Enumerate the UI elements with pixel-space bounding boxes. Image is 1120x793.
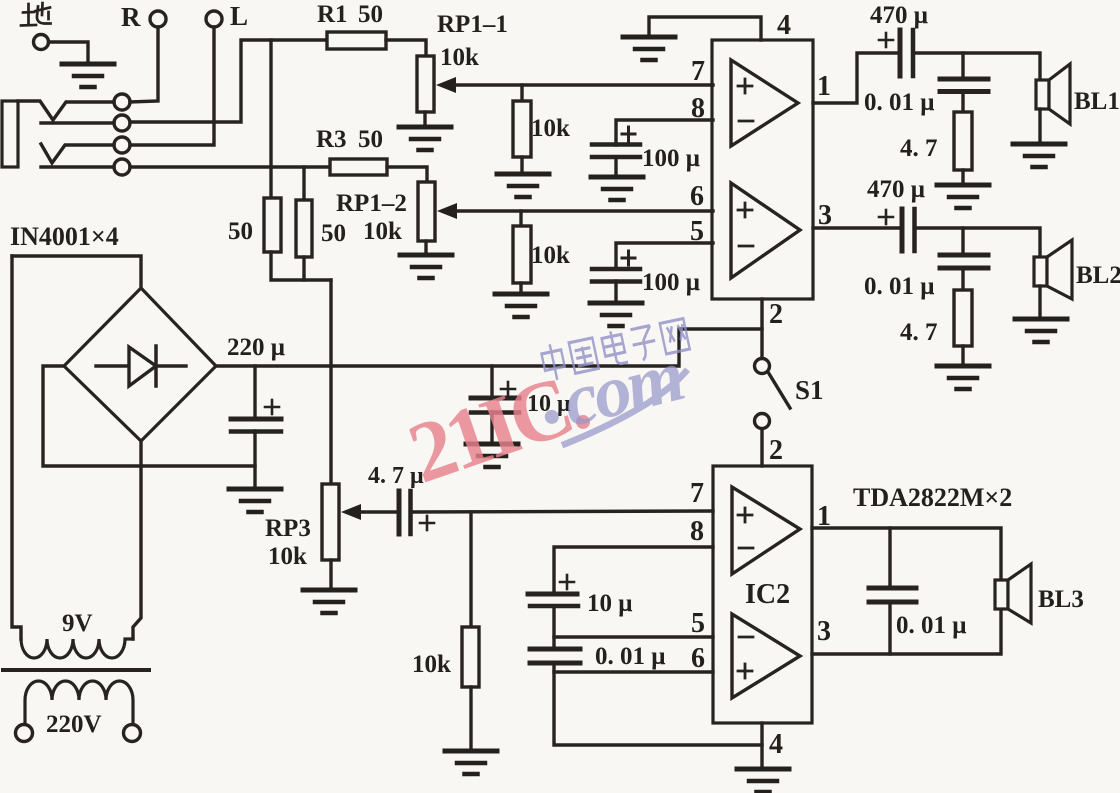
svg-text:470 μ: 470 μ <box>867 176 925 203</box>
svg-text:R3: R3 <box>316 126 347 153</box>
wire BL1 to ground <box>1038 109 1041 142</box>
svg-text:5: 5 <box>691 608 705 639</box>
svg-text:6: 6 <box>690 181 704 212</box>
capacitor 470u (ch1) <box>879 30 913 76</box>
ground BL2 <box>1015 319 1067 342</box>
svg-text:4. 7: 4. 7 <box>900 319 938 346</box>
ground 220u <box>229 489 281 512</box>
wire RP1-1 wiper to IC1 pin7 <box>454 83 713 86</box>
resistor R1 50 <box>327 32 386 49</box>
wire RP1-2 bottom <box>424 241 427 253</box>
label 地 (ground) hand-drawn glyph <box>21 3 51 26</box>
resistor R3 50 <box>330 159 387 175</box>
svg-text:1: 1 <box>817 501 831 532</box>
wire 0.01u ch2 drop <box>961 228 964 255</box>
switch S1 bottom contact <box>755 414 770 429</box>
svg-text:6: 6 <box>691 643 705 674</box>
wire 100u pin5 bottom <box>614 281 617 301</box>
op-amp IC1-A <box>731 60 798 146</box>
wire 100u pin8 bottom <box>614 157 617 175</box>
jack L line <box>41 165 114 168</box>
svg-text:0. 01 μ: 0. 01 μ <box>864 273 934 300</box>
terminal L <box>206 11 222 27</box>
capacitor 470u (ch2) <box>879 209 915 251</box>
ground BL1 <box>1013 144 1065 167</box>
svg-text:2: 2 <box>769 299 783 330</box>
wire IC2 pin4 <box>760 723 763 767</box>
ground (input common) <box>62 64 114 87</box>
capacitor 220u <box>231 366 281 487</box>
wire 10k bias 2 bottom <box>519 283 522 292</box>
wire 4.7 ch1 bottom <box>961 170 964 183</box>
jack contact 4 <box>114 159 130 175</box>
op-amp IC2-A <box>732 487 800 574</box>
svg-text:100 μ: 100 μ <box>642 145 700 172</box>
resistor 10k (pin6 bias) <box>513 226 531 283</box>
svg-text:BL1: BL1 <box>1074 88 1120 115</box>
svg-text:R: R <box>121 2 141 32</box>
terminal R <box>150 11 166 27</box>
bridge rectifier IN4001x4 diamond <box>64 288 216 441</box>
ground IC1 pin4 <box>623 37 675 60</box>
svg-text:0. 01 μ: 0. 01 μ <box>595 643 665 670</box>
svg-text:5: 5 <box>690 216 704 247</box>
wire 4.7 ch2 bottom <box>961 346 964 364</box>
wire 10k bias 1 bottom <box>520 157 523 172</box>
svg-text:50: 50 <box>358 126 383 153</box>
wire R-channel drop to 50 ohm mix resistor <box>269 40 272 198</box>
capacitor 0.01u (ch2) <box>940 255 988 268</box>
speaker BL1 <box>1036 80 1049 109</box>
wire IC2 pin5 <box>554 635 713 638</box>
wire IN4001 top loop <box>12 256 141 288</box>
ground 10k input <box>445 751 497 774</box>
watermark 21IC pink <box>397 352 598 501</box>
resistor 4.7 (ch1) <box>954 112 972 170</box>
wire 4.7u to IC2 pin7 <box>411 511 713 512</box>
svg-text:BL2: BL2 <box>1076 262 1120 289</box>
svg-text:0. 01 μ: 0. 01 μ <box>896 612 966 639</box>
wire IC1 pin1 output <box>813 53 898 103</box>
wire RP1-2 wiper to IC1 pin6 <box>455 209 713 212</box>
capacitor 4.7u <box>399 491 434 534</box>
wire 0.01u BL3 bottom <box>888 602 891 654</box>
svg-text:IC2: IC2 <box>745 579 790 610</box>
svg-text:L: L <box>230 1 248 31</box>
jack contact 1 <box>114 94 130 110</box>
svg-text:3: 3 <box>817 616 831 647</box>
wire 地 to ground <box>49 42 89 62</box>
wire 10u to pin5 node <box>552 606 555 649</box>
wire IC2 pin1 output <box>812 528 1001 580</box>
wire IC1 pin5 to 100u <box>616 243 713 269</box>
svg-text:7: 7 <box>690 478 704 509</box>
op-amp IC2-B <box>732 614 800 698</box>
terminal 220V right <box>124 725 141 742</box>
jack contact 2 <box>114 115 130 131</box>
svg-text:10k: 10k <box>363 218 402 245</box>
svg-text:220 μ: 220 μ <box>227 334 285 361</box>
op-amp IC1-B <box>731 183 800 278</box>
svg-text:TDA2822M×2: TDA2822M×2 <box>853 483 1012 512</box>
ground 100u pin5 <box>590 303 642 326</box>
wire 10k bias 2 drop <box>519 211 522 226</box>
capacitor 100u (pin5) <box>592 251 640 282</box>
IC1 TDA2822M box <box>712 40 813 299</box>
svg-text:7: 7 <box>691 56 705 87</box>
wire 0.01u ch1 drop <box>961 53 964 79</box>
wire IC2 pin6 <box>554 670 713 673</box>
resistor 50 (right mix) <box>296 200 312 257</box>
wire IC1 pin8 to 100u <box>616 120 713 145</box>
wire contact3 to L terminal <box>130 27 214 145</box>
ground RP1-2 <box>400 255 452 278</box>
svg-text:50: 50 <box>358 1 383 28</box>
ground 10u rail <box>466 444 518 467</box>
watermark 中国电子网 blue <box>540 316 690 382</box>
watermark com script blue <box>533 333 698 449</box>
capacitor 0.01u (BL3) <box>869 588 916 602</box>
capacitor 10u (rail filter) <box>471 366 519 442</box>
wire RP1-1 bottom <box>423 112 426 125</box>
wire mix node down to RP3 <box>329 280 332 484</box>
wire contact4 to R3 <box>130 165 330 168</box>
svg-text:3: 3 <box>818 200 832 231</box>
wire RP3 bottom <box>329 560 332 588</box>
potentiometer RP1-2 10k <box>418 182 435 241</box>
resistor 50 (left mix) <box>264 198 281 252</box>
wire switch to IC2 pin2 <box>760 429 763 466</box>
wire RP3 wiper to 4.7u <box>359 510 397 513</box>
wire IC1 pin3 output <box>813 226 902 229</box>
ground 100u pin8 <box>591 177 643 200</box>
wire 0.01u ch1 to 4.7 <box>961 91 964 112</box>
wire transformer secondary left lead <box>12 256 21 639</box>
ground 10k bias 2 <box>495 294 547 317</box>
svg-text:10k: 10k <box>412 651 451 678</box>
svg-text:9V: 9V <box>62 610 93 637</box>
potentiometer RP1-1 10k <box>417 56 434 112</box>
wire 10k input bottom <box>469 687 472 749</box>
ground RP1-1 <box>399 127 451 150</box>
svg-text:R1: R1 <box>317 1 348 28</box>
switch S1 top contact <box>755 359 770 374</box>
svg-text:4. 7: 4. 7 <box>900 135 938 162</box>
jack body <box>2 101 18 167</box>
resistor 10k (IC2 input) <box>462 627 479 687</box>
svg-text:8: 8 <box>691 93 705 124</box>
transformer core <box>3 668 149 672</box>
ground RP3 <box>303 590 355 613</box>
potentiometer RP3 10k <box>322 484 339 560</box>
terminal 220V left <box>16 725 33 742</box>
transformer secondary 9V winding <box>21 639 133 658</box>
speaker BL3 <box>995 580 1008 609</box>
wire 10k input drop <box>469 512 472 627</box>
wire 0.01u BL3 top drop <box>888 528 891 588</box>
svg-text:2: 2 <box>769 435 783 466</box>
wire 10k bias 1 drop <box>520 85 523 101</box>
capacitor 0.01u (ch1) <box>940 79 988 92</box>
wire mix resistor bottoms joined <box>271 252 331 280</box>
speaker BL2 <box>1034 257 1047 286</box>
svg-text:220V: 220V <box>46 711 102 738</box>
svg-text:8: 8 <box>690 516 704 547</box>
wire IC1 pin4 to ground <box>649 17 761 40</box>
jack sleeve prong with spring <box>18 101 114 120</box>
transformer primary 220V winding <box>25 681 133 724</box>
svg-text:RP1–2: RP1–2 <box>336 190 407 217</box>
IC2 box <box>713 466 812 723</box>
wire 470u ch1 to BL1 <box>913 53 1040 80</box>
diode symbol inside bridge <box>96 364 186 367</box>
svg-text:0. 01 μ: 0. 01 μ <box>864 89 934 116</box>
terminal 地 circle <box>34 35 49 50</box>
svg-text:10 μ: 10 μ <box>587 590 632 617</box>
wire BL2 to ground <box>1038 286 1041 317</box>
wire R1 to RP1-1 <box>386 40 426 56</box>
wire R3 to RP1-2 <box>387 167 427 182</box>
wire 0.01u node down to pin4 rail <box>554 663 762 745</box>
capacitor 10u (IC2 feedback) <box>528 575 578 606</box>
ground 10k bias 1 <box>497 174 549 197</box>
ground 4.7 ch2 <box>937 366 989 389</box>
resistor 4.7 (ch2) <box>954 290 972 346</box>
svg-text:10k: 10k <box>268 543 307 570</box>
ground 4.7 ch1 <box>937 185 989 208</box>
wire bridge bottom to transformer <box>133 441 141 639</box>
svg-text:IN4001×4: IN4001×4 <box>10 222 119 251</box>
svg-text:10k: 10k <box>440 44 479 71</box>
wire L-channel drop to 50 ohm mix resistor <box>302 167 305 200</box>
switch S1 lever <box>768 372 790 408</box>
svg-text:4: 4 <box>777 10 791 41</box>
svg-text:470 μ: 470 μ <box>870 2 928 29</box>
svg-text:50: 50 <box>228 218 253 245</box>
svg-text:100 μ: 100 μ <box>642 269 700 296</box>
svg-text:10k: 10k <box>531 242 570 269</box>
svg-text:1: 1 <box>817 71 831 102</box>
capacitor 100u (pin8) <box>592 127 640 157</box>
svg-text:RP3: RP3 <box>265 515 311 542</box>
wire IC2 pin3 output <box>812 609 1001 654</box>
wire bridge plus rail 220u <box>216 329 762 366</box>
wire 470u ch2 to BL2 <box>915 228 1040 257</box>
svg-text:S1: S1 <box>795 375 824 405</box>
wire contact1 to R terminal <box>130 27 158 102</box>
wire 0.01u ch2 to 4.7 <box>961 268 964 290</box>
wire bridge minus to ground rail <box>43 366 255 466</box>
ground IC2 pin4 <box>737 769 789 792</box>
resistor 10k (pin7 bias) <box>513 101 531 157</box>
svg-text:RP1–1: RP1–1 <box>437 11 508 38</box>
jack contact 3 <box>114 137 130 153</box>
wire IC1 pin2 to switch <box>760 299 763 358</box>
svg-text:50: 50 <box>321 220 346 247</box>
capacitor 0.01u (IC2 feedback) <box>530 649 580 663</box>
wire IC2 pin8 to 10u <box>554 547 713 594</box>
svg-text:10k: 10k <box>531 115 570 142</box>
jack ring prong with spring <box>41 144 114 163</box>
svg-text:BL3: BL3 <box>1038 586 1084 613</box>
svg-text:4: 4 <box>769 729 783 760</box>
jack R line <box>41 121 114 124</box>
wire contact2 up to R1 rail <box>130 40 327 122</box>
